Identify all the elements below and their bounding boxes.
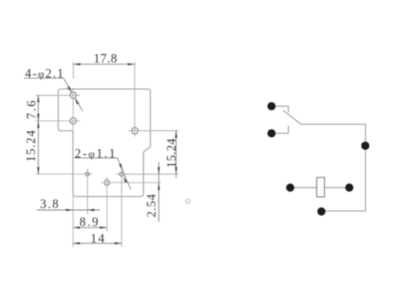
svg-text:2-φ1.1: 2-φ1.1: [75, 146, 117, 160]
svg-text:15.24: 15.24: [164, 138, 178, 168]
svg-text:14: 14: [91, 232, 107, 246]
svg-text:17.8: 17.8: [94, 52, 118, 66]
svg-text:4-φ2.1: 4-φ2.1: [25, 66, 65, 80]
svg-text:3.8: 3.8: [40, 197, 60, 211]
svg-text:7.6: 7.6: [24, 99, 38, 119]
svg-text:2.54: 2.54: [145, 193, 159, 217]
svg-text:8.9: 8.9: [79, 215, 99, 229]
svg-text:15.24: 15.24: [24, 129, 38, 162]
